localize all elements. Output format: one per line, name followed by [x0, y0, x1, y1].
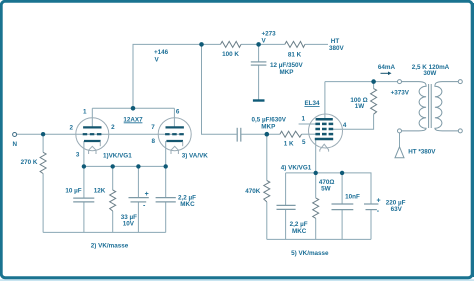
svg-text:4: 4 — [343, 122, 347, 129]
svg-text:N: N — [13, 141, 18, 148]
wire: V1a anode lead — [91, 108, 93, 127]
svg-text:MKC: MKC — [292, 228, 307, 235]
capacitor 33uF 10V electrolytic — [121, 191, 149, 227]
svg-text:+273: +273 — [262, 30, 277, 37]
wire: bottom-right ground rail — [267, 238, 371, 240]
wire: 270K branch top — [42, 134, 44, 152]
capacitor 12uF 350V MKP — [251, 62, 304, 76]
wire: EL34 pin1 stub — [299, 123, 316, 125]
wire: V1a cathode lead — [83, 141, 85, 166]
wire: bottom-left ground rail — [43, 231, 166, 233]
svg-text:10V: 10V — [123, 221, 135, 228]
resistor 470R 5W — [313, 179, 335, 218]
wire: 100K to +273 node — [241, 43, 285, 45]
svg-text:12AX7: 12AX7 — [123, 116, 143, 123]
resistor 470K — [245, 181, 270, 202]
svg-text:1: 1 — [83, 109, 87, 116]
svg-text:1W: 1W — [355, 103, 365, 110]
svg-text:MKP: MKP — [261, 124, 275, 131]
svg-text:63V: 63V — [391, 206, 403, 213]
label 12AX7 — [123, 116, 143, 123]
svg-text:+: + — [377, 198, 381, 205]
node: cathode rail dots — [82, 164, 168, 168]
label +146 V — [154, 49, 169, 64]
pentode V2 EL34 — [309, 114, 343, 152]
svg-text:12K: 12K — [94, 187, 106, 194]
wire: 2.2uF branch / V1b cathode lead — [165, 141, 167, 198]
input terminal N — [13, 133, 18, 149]
wire: 12K branch — [112, 166, 114, 190]
transformer T1 output — [398, 64, 463, 133]
svg-text:1 K: 1 K — [284, 140, 294, 147]
label +273 V — [262, 30, 277, 44]
capacitor 0.5uF 630V MKP coupling — [237, 116, 287, 141]
svg-text:MKP: MKP — [280, 69, 294, 76]
svg-text:5W: 5W — [321, 185, 331, 192]
svg-text:HT: HT — [331, 38, 340, 45]
svg-text:5: 5 — [302, 139, 306, 146]
node: plate node dot — [199, 42, 204, 47]
svg-text:380V: 380V — [329, 45, 345, 52]
svg-text:0,5 µF/630V: 0,5 µF/630V — [252, 116, 287, 123]
wire: cathode rail 12AX7 — [84, 165, 166, 167]
node: anode tie junction dot — [131, 106, 136, 111]
svg-text:100 K: 100 K — [222, 51, 239, 58]
svg-text:2: 2 — [69, 125, 73, 132]
svg-text:2) VK/masse: 2) VK/masse — [91, 243, 129, 250]
svg-text:EL34: EL34 — [304, 100, 320, 107]
triode V1b 12AX7 section 2 — [158, 118, 191, 154]
svg-text:1)VK/VG1: 1)VK/VG1 — [103, 153, 132, 160]
node: EL34 cathode rail dots — [314, 171, 345, 175]
svg-text:10nF: 10nF — [345, 194, 360, 201]
wire: 470R branch — [315, 173, 317, 198]
wire: V1b anode lead — [173, 108, 175, 127]
node: +273 node dot — [256, 42, 261, 47]
wire: 470K branch — [266, 134, 268, 180]
svg-text:7: 7 — [151, 124, 155, 131]
node: grid junction dot — [265, 132, 270, 137]
svg-text:+146: +146 — [154, 49, 169, 56]
svg-text:3: 3 — [76, 151, 80, 158]
svg-text:30W: 30W — [423, 70, 436, 77]
svg-text:8: 8 — [152, 138, 156, 145]
wire: 10nF branch — [341, 173, 343, 204]
ground (12uF) — [253, 99, 265, 101]
wire: anode riser to top rail — [133, 44, 221, 108]
wire: 12uF branch — [258, 44, 260, 61]
node: input junction dot — [41, 132, 45, 136]
capacitor 220uF 63V electrolytic — [364, 198, 406, 216]
label EL34 — [304, 100, 320, 107]
resistor 1K — [280, 131, 302, 147]
wire: 270K branch bottom — [42, 174, 44, 233]
svg-text:64mA: 64mA — [378, 64, 396, 71]
wire: 10uF branch — [83, 166, 85, 198]
svg-text:HT *380V: HT *380V — [408, 148, 436, 155]
svg-text:+373V: +373V — [391, 90, 410, 97]
resistor 100R 1W — [350, 89, 376, 115]
wire: EL34 cathode rail — [286, 173, 371, 204]
wire: 81K to HT — [305, 43, 328, 45]
capacitor 10uF — [65, 187, 94, 202]
svg-text:81 K: 81 K — [288, 51, 302, 58]
HT supply triangle — [395, 147, 436, 158]
wire: transformer primary bottom to HT triangle — [399, 133, 401, 147]
svg-text:12 µF/350V: 12 µF/350V — [270, 62, 303, 69]
label HT 380V — [329, 38, 345, 52]
wire: coupling cap to grid junction — [241, 133, 280, 135]
wire: input grid line — [17, 133, 183, 135]
wire: EL34 anode riser — [324, 82, 326, 120]
capacitor 10nF — [332, 194, 360, 210]
svg-text:6: 6 — [176, 109, 180, 116]
svg-text:5) VK/masse: 5) VK/masse — [291, 250, 329, 257]
svg-text:2: 2 — [111, 124, 115, 131]
resistor 100K — [221, 41, 242, 58]
svg-text:4) VK/VG1: 4) VK/VG1 — [281, 164, 312, 171]
svg-text:470K: 470K — [245, 188, 261, 195]
svg-text:MKC: MKC — [180, 201, 195, 208]
resistor 12K — [94, 187, 116, 211]
triode V1a 12AX7 section 1 — [76, 118, 109, 154]
svg-text:1: 1 — [301, 116, 305, 123]
svg-text:270 K: 270 K — [21, 159, 38, 166]
wire: anode tie line — [92, 107, 174, 109]
wire: anode rail to transformer — [325, 81, 398, 83]
svg-text:10 µF: 10 µF — [65, 187, 81, 194]
svg-text:3) VA/VK: 3) VA/VK — [182, 153, 209, 160]
resistor 81K — [285, 41, 305, 58]
svg-text:+: + — [145, 191, 149, 198]
wire: 2.2uF MKC branch — [285, 173, 287, 206]
wire: plate takeoff to coupling cap — [202, 44, 237, 134]
capacitor 2.2uF MKC (EL34 stage) — [277, 205, 308, 235]
capacitor 2.2uF MKC (first stage) — [156, 195, 197, 209]
node: screen feed dot — [371, 79, 376, 84]
wire: 100R branch — [373, 82, 375, 89]
wire: 33uF branch — [137, 166, 139, 197]
wire: EL34 cathode lead — [315, 139, 317, 173]
wire: 1K to EL34 pin5 — [302, 133, 317, 135]
resistor 270K — [21, 152, 47, 173]
label 64mA with arrow — [378, 64, 396, 75]
